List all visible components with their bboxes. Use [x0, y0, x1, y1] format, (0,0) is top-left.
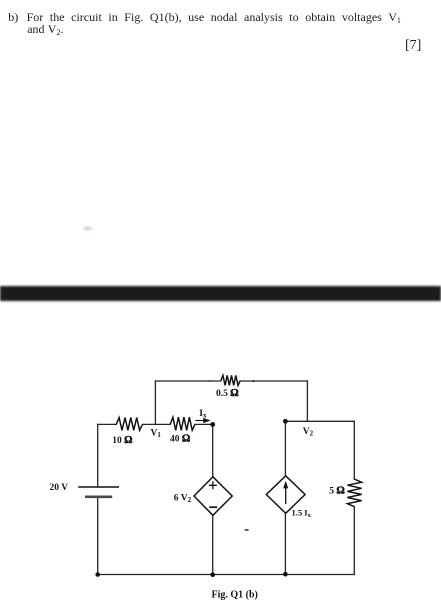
svg-text:0.5 Ω: 0.5 Ω — [216, 388, 239, 399]
wire top loop upper horizontal left of 0.5ohm — [155, 380, 220, 382]
blip on top wire left — [209, 380, 211, 382]
wire current source I1 down to bottom rail — [284, 513, 286, 574]
svg-text:10 Ω: 10 Ω — [112, 435, 132, 446]
svg-text:20 V: 20 V — [50, 483, 69, 493]
svg-text:6 V2: 6 V2 — [174, 493, 192, 504]
U1 plus sign — [209, 481, 217, 489]
bottom U1 junction dot — [210, 572, 215, 577]
I1 arrow up — [285, 488, 287, 505]
battery V source 20V short plate — [85, 495, 112, 498]
wire top loop left vertical (V1 to top) — [154, 381, 156, 425]
dependent voltage source U1 diamond (6V2) — [194, 477, 232, 516]
wire top loop right vertical (down to V2 row) — [306, 381, 308, 421]
svg-text:5 Ω: 5 Ω — [329, 486, 345, 497]
blip on top wire right — [252, 380, 254, 382]
svg-text:Fig. Q1 (b): Fig. Q1 (b) — [212, 590, 258, 601]
wire right rail top (V2 row to 5ohm) — [353, 421, 355, 479]
wire top loop upper horizontal right of 0.5ohm — [240, 380, 307, 382]
svg-text:V2: V2 — [303, 427, 314, 438]
dependent current source I1 diamond (1.5Ix) — [266, 476, 305, 514]
svg-text:40 Ω: 40 Ω — [170, 434, 190, 445]
wire V2 row horizontal — [285, 420, 354, 422]
separator bar — [0, 286, 441, 301]
bottom-left junction dot — [95, 572, 100, 577]
svg-text:Ix: Ix — [199, 409, 207, 420]
bottom I1 junction dot — [283, 572, 288, 577]
Ix current arrow above 40 ohm — [195, 420, 205, 422]
wire mid row: 10ohm to 40ohm (through node V1) — [143, 423, 171, 425]
svg-text:V1: V1 — [151, 429, 162, 440]
resistor 5 ohm — [347, 479, 361, 507]
wire bottom rail — [98, 574, 355, 576]
wire dependent source U1 down to bottom rail — [212, 515, 214, 574]
node A junction dot — [210, 422, 215, 427]
wire left rail bottom (battery to bottom rail) — [97, 497, 99, 575]
svg-text:1.5 Ix: 1.5 Ix — [292, 508, 312, 519]
battery V source 20V long plate — [78, 486, 119, 488]
resistor 0.5 ohm — [221, 375, 240, 385]
stray dash mark — [245, 529, 249, 531]
node V2 junction dot — [283, 419, 288, 424]
wire right rail bottom (5ohm to bottom rail) — [353, 507, 355, 575]
resistor 40 ohm — [170, 417, 195, 430]
wire V2 node down to current source I1 — [284, 421, 286, 476]
wire left rail top (left corner down to battery) — [97, 425, 99, 487]
wire node A down to dependent source U1 — [212, 424, 214, 477]
resistor 10 ohm — [116, 418, 142, 431]
wire mid row: 40ohm to node A — [195, 423, 213, 425]
U1 minus sign — [209, 506, 217, 508]
wire mid row: left corner to 10ohm — [98, 423, 117, 425]
